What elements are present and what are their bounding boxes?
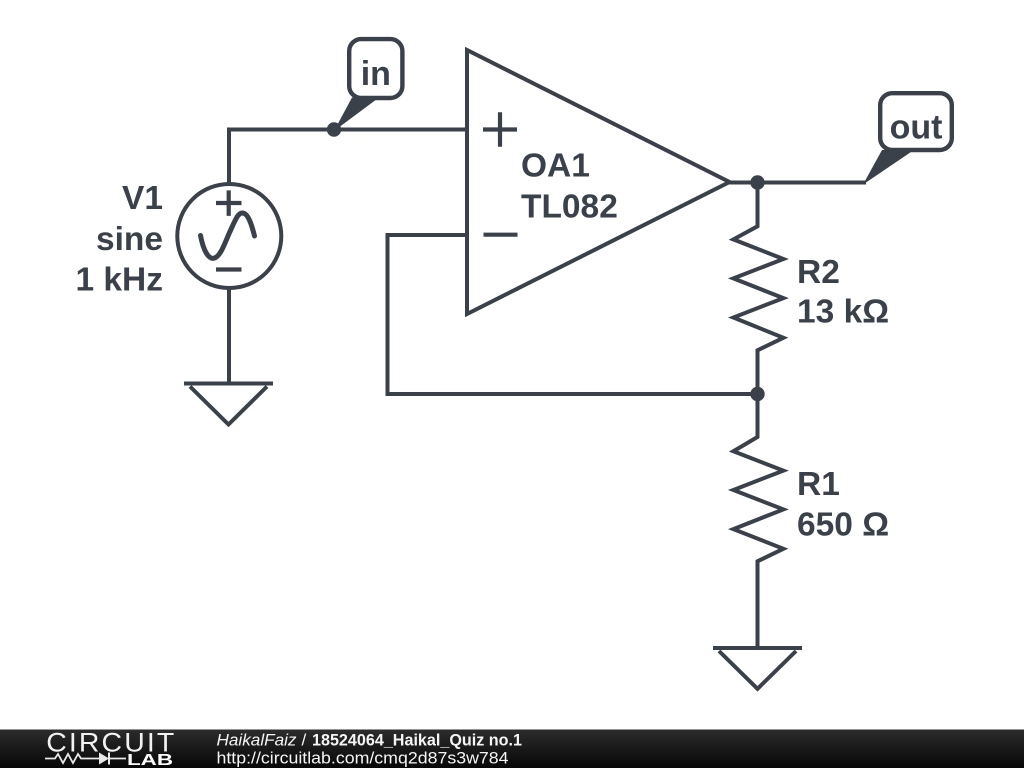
wire: feedback from op-amp minus input down to R2/R1 junction [388, 235, 758, 394]
resistor R2 [733, 183, 783, 395]
op-amp OA1 plus input symbol [483, 112, 517, 147]
svg-text:R1: R1 [797, 466, 840, 503]
voltage source V1 plus sign [216, 190, 242, 216]
svg-text:18524064_Haikal_Quiz no.1: 18524064_Haikal_Quiz no.1 [312, 731, 522, 750]
wire: input net from V1 top to op-amp + input [229, 130, 467, 187]
wire: op-amp output to out flag [730, 181, 867, 185]
voltage source V1 circle [177, 184, 281, 288]
node dot: output net [750, 175, 764, 189]
net flag "in" box [349, 39, 402, 98]
svg-text:TL082: TL082 [521, 189, 618, 226]
CircuitLab logo resistor-diode glyph [45, 754, 126, 763]
svg-text:http://circuitlab.com/cmq2d87s: http://circuitlab.com/cmq2d87s3w784 [217, 748, 509, 767]
svg-text:HaikalFaiz: HaikalFaiz [217, 731, 298, 750]
node dot: net "in" junction [327, 122, 341, 136]
net flag "out" pointer [863, 150, 914, 185]
svg-text:R2: R2 [797, 254, 840, 291]
svg-text:sine: sine [96, 221, 163, 258]
svg-text:V1: V1 [122, 180, 163, 217]
op-amp OA1 minus input symbol [484, 233, 518, 237]
svg-text:/: / [302, 731, 307, 750]
node dot: R2/R1 feedback junction [750, 387, 764, 401]
svg-text:out: out [890, 109, 943, 147]
ground symbol below R1 [713, 646, 802, 650]
net flag "out" box [880, 93, 952, 150]
svg-text:LAB: LAB [127, 752, 173, 768]
ground symbol below V1 [184, 382, 273, 386]
wire: V1 bottom lead to ground [227, 286, 231, 384]
op-amp OA1 triangle [467, 50, 730, 314]
svg-text:OA1: OA1 [521, 148, 590, 185]
svg-text:13 kΩ: 13 kΩ [797, 294, 889, 331]
resistor R1 [733, 394, 783, 648]
svg-text:in: in [361, 55, 391, 93]
voltage source V1 minus sign [216, 267, 242, 271]
net flag "in" pointer [334, 98, 379, 132]
svg-text:650 Ω: 650 Ω [797, 506, 889, 543]
svg-text:1 kHz: 1 kHz [75, 262, 163, 299]
voltage source V1 sine wave [201, 213, 255, 258]
